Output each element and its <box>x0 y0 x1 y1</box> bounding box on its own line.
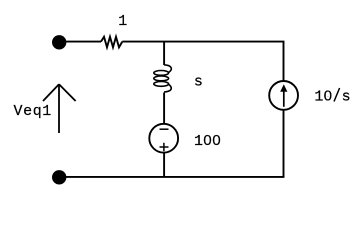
inductor L1 value s (coil) <box>154 65 172 92</box>
wire: right branch top vertical <box>283 42 285 82</box>
wire: middle branch vertical (inductor to voltage source) <box>163 93 165 125</box>
svg-text:s: s <box>342 88 351 105</box>
wire: right branch bottom vertical <box>283 110 285 177</box>
Veq1 arrow (upward open arrow) <box>43 84 76 133</box>
label: current source value 10/s <box>314 88 350 105</box>
wire: top horizontal (resistor to top-right corner) <box>122 41 284 43</box>
svg-text:Veq1: Veq1 <box>14 103 52 120</box>
wire: bottom horizontal <box>59 176 284 178</box>
svg-text:100: 100 <box>194 133 221 150</box>
svg-text:1: 1 <box>118 13 127 30</box>
node: bottom-left terminal dot <box>52 170 66 184</box>
resistor R1 value 1 (zigzag) <box>101 37 122 48</box>
wire: top-left horizontal (dot to resistor) <box>59 41 101 43</box>
svg-text:10: 10 <box>314 88 332 105</box>
label: voltage source value 100 <box>194 133 221 150</box>
voltage source V1 value 100 <box>149 124 178 153</box>
node: top-left terminal dot <box>52 35 66 49</box>
current source I1 value 10/s <box>269 81 298 110</box>
svg-text:s: s <box>194 73 203 90</box>
wire: middle branch bottom vertical (voltage source to bottom wire) <box>163 153 165 177</box>
wire: middle branch top vertical (junction to inductor) <box>163 42 165 65</box>
